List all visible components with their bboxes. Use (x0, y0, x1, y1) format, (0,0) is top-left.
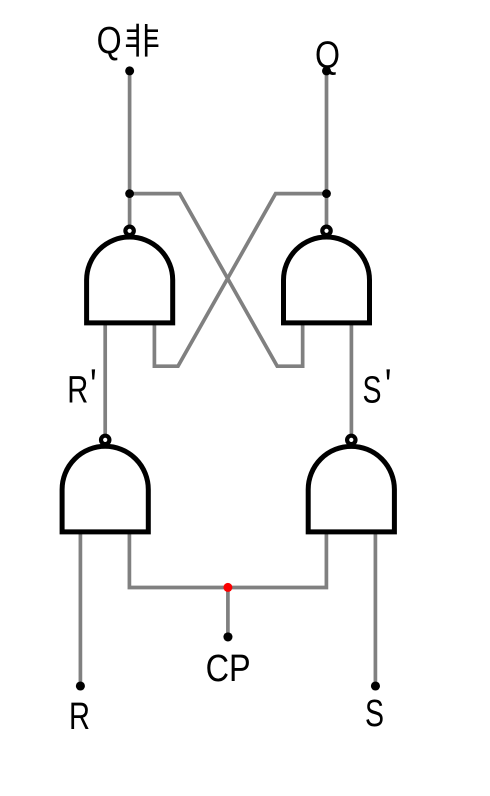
svg-text:Q: Q (97, 20, 122, 62)
svg-text:R: R (67, 370, 88, 412)
svg-text:S: S (363, 370, 382, 412)
svg-text:CP: CP (206, 648, 251, 690)
svg-text:Q: Q (315, 35, 340, 77)
svg-text:R: R (69, 696, 90, 738)
svg-text:S: S (365, 693, 384, 735)
